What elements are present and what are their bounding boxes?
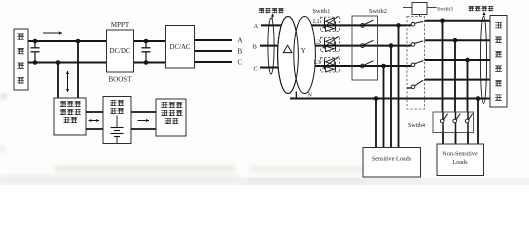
svg-text:A: A — [238, 36, 243, 44]
svg-text:C: C — [238, 59, 243, 67]
svg-text:B: B — [238, 47, 243, 55]
svg-text:Swith4: Swith4 — [408, 123, 425, 129]
svg-text:Swith1: Swith1 — [313, 8, 331, 15]
svg-text:Sensitive Loads: Sensitive Loads — [372, 156, 412, 163]
svg-text:DC/DC: DC/DC — [109, 48, 130, 55]
svg-text:Swith2: Swith2 — [369, 8, 387, 15]
svg-text:BOOST: BOOST — [109, 76, 133, 84]
svg-text:Non-Sensitive: Non-Sensitive — [442, 151, 478, 158]
svg-text:Y: Y — [301, 47, 306, 55]
svg-text:Swith3: Swith3 — [437, 7, 453, 13]
svg-text:L1: L1 — [313, 19, 320, 25]
svg-text:A: A — [254, 23, 259, 30]
svg-text:L3: L3 — [314, 60, 321, 66]
svg-text:C: C — [254, 66, 258, 73]
svg-text:B: B — [253, 43, 258, 50]
svg-text:L2: L2 — [314, 40, 321, 46]
svg-text:Loads: Loads — [452, 159, 468, 166]
svg-text:N: N — [308, 93, 313, 99]
svg-text:DC/AC: DC/AC — [169, 44, 190, 51]
svg-text:MPPT: MPPT — [111, 21, 130, 29]
